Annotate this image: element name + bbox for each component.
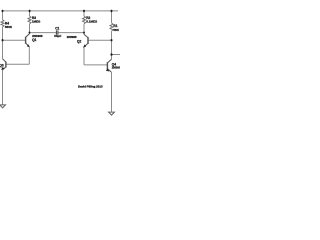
svg-text:5.1MEG: 5.1MEG xyxy=(86,20,98,24)
svg-text:David Pilling 2013: David Pilling 2013 xyxy=(78,85,103,89)
svg-text:2N3906: 2N3906 xyxy=(67,35,77,39)
svg-text:56K: 56K xyxy=(113,28,119,32)
svg-text:C1: C1 xyxy=(55,26,59,30)
svg-text:Q1: Q1 xyxy=(32,38,36,42)
svg-text:560K: 560K xyxy=(5,25,13,29)
svg-text:Q2: Q2 xyxy=(77,39,81,43)
svg-text:Q3: Q3 xyxy=(0,63,4,67)
svg-text:2N3906: 2N3906 xyxy=(112,66,120,70)
svg-text:1MEG: 1MEG xyxy=(32,20,41,24)
svg-text:50pF: 50pF xyxy=(54,34,61,38)
